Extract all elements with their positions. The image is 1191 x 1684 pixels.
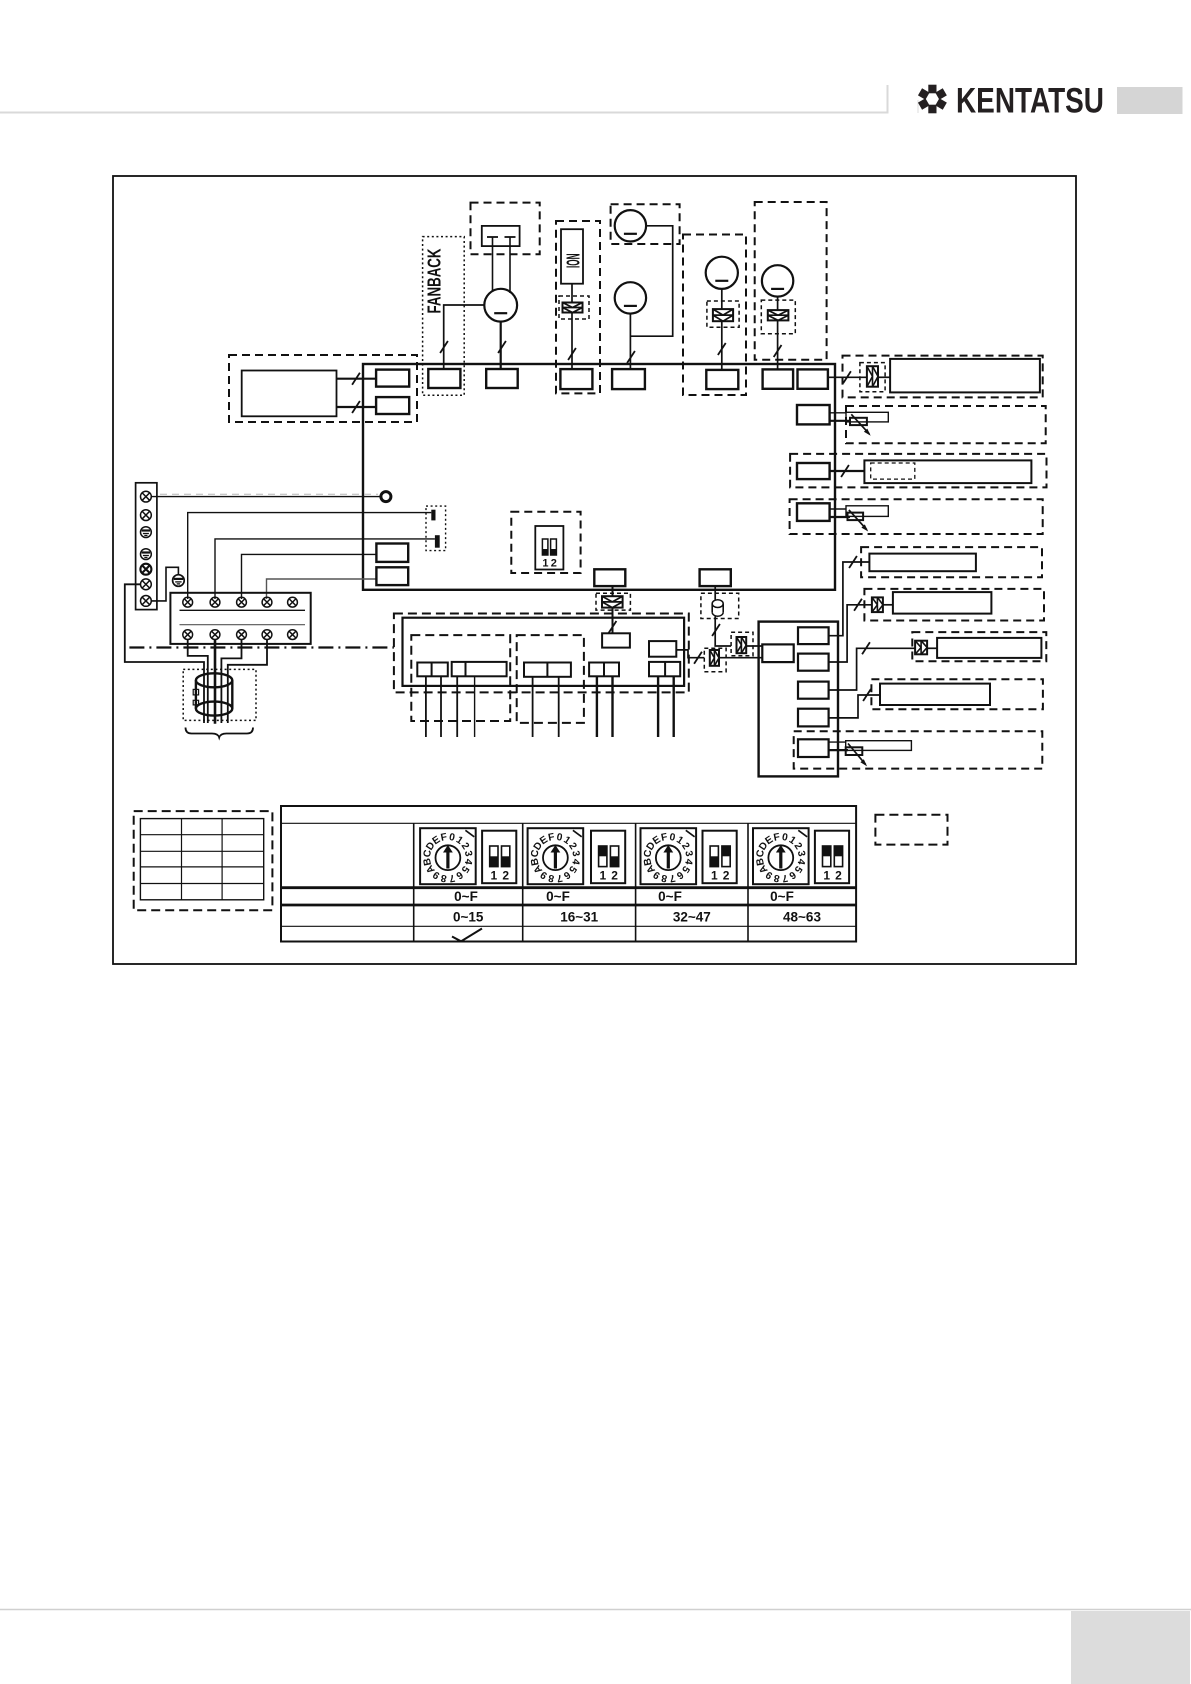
wire block4 down xyxy=(228,640,267,724)
wire ion to plug xyxy=(571,284,573,303)
connector CN-L3 xyxy=(376,544,408,562)
rotary switch 1 xyxy=(420,828,476,884)
display PCB outline xyxy=(759,622,838,777)
indicator A6 dashed box xyxy=(864,589,1044,621)
ferrite bead dashed box xyxy=(701,593,739,618)
wire fanback to fan motor xyxy=(444,305,485,369)
plug S1 dashed box xyxy=(704,648,726,672)
wire M2a loop xyxy=(630,226,672,336)
connector S2-out xyxy=(649,641,676,657)
louver motor M2b xyxy=(615,282,646,313)
rotary switch 4 xyxy=(753,828,809,884)
sub board outer dashed box xyxy=(394,614,689,693)
DIP switch SW1 dashed box xyxy=(511,512,580,573)
block screw bottom 3 xyxy=(237,630,247,640)
wire S2 to display PCB xyxy=(746,645,762,647)
A7 plug connector xyxy=(915,641,927,655)
wire count slash xyxy=(862,642,870,654)
rotary switch 3 xyxy=(641,828,697,884)
wire riser board to A6 xyxy=(829,605,872,662)
fan motor M1 xyxy=(484,289,517,322)
indicator body A7 xyxy=(937,638,1041,658)
wire CN-A to plug xyxy=(612,586,614,596)
wires board to sensor A9 xyxy=(829,741,846,743)
svg-text:0~F: 0~F xyxy=(658,889,682,904)
wires CN-T1 to sensor xyxy=(830,412,846,414)
ion plug dashed box xyxy=(559,296,589,319)
terminal group dashed box 1 xyxy=(411,635,510,721)
terminal group dashed box 2 xyxy=(517,635,584,723)
DIP SW1 switch 1 xyxy=(542,539,548,555)
sensor arrow A2 xyxy=(851,414,869,434)
wire screw3 riser to CN-L3 xyxy=(242,554,377,599)
svg-text:0~F: 0~F xyxy=(770,889,794,904)
block screw top 3 xyxy=(237,597,247,607)
rotary switch 2 xyxy=(528,828,584,884)
address table column line xyxy=(747,823,749,941)
connector S1-in xyxy=(602,633,630,647)
wire M3 to CN-SWING2 xyxy=(721,289,723,309)
capacitor terminal 1 xyxy=(487,236,498,238)
diagram border xyxy=(113,176,1076,964)
wire T6 to cable xyxy=(125,584,204,723)
connector CN-T2 xyxy=(797,463,830,479)
svg-text:0~15: 0~15 xyxy=(453,910,484,925)
header rule xyxy=(0,85,888,113)
DIP switch bank 3 xyxy=(703,831,737,884)
plug connector below CN-A xyxy=(602,596,623,607)
wire count slash xyxy=(498,341,506,353)
M4 plug connector xyxy=(768,310,789,320)
connector G4 xyxy=(589,663,619,677)
power supply module dashed box xyxy=(229,355,417,422)
wire count slash xyxy=(718,343,726,355)
connector G3 xyxy=(524,663,571,677)
strip terminal 1 xyxy=(141,491,152,502)
wires CN-T3 to sensor xyxy=(830,508,846,510)
wire power to CN-L2 xyxy=(337,406,377,408)
connector CN-SWING2 xyxy=(706,370,738,389)
svg-text:2: 2 xyxy=(835,869,842,883)
wire count slash xyxy=(627,351,635,363)
M4 plug dashed box xyxy=(761,300,795,334)
block screw top 4 xyxy=(262,597,272,607)
plug S2 dashed box xyxy=(731,632,753,656)
connector CN-D2 xyxy=(798,654,829,671)
svg-text:1: 1 xyxy=(711,869,718,883)
address table thick line 2 xyxy=(281,904,856,907)
connector CN-L1 xyxy=(376,370,409,387)
louver motor M2a xyxy=(615,210,646,241)
svg-text:2: 2 xyxy=(502,869,509,883)
wire count slash xyxy=(712,624,720,636)
wire capacitor to motor 2 xyxy=(509,246,511,293)
receiver body A3 xyxy=(864,460,1031,483)
sensor body A9 xyxy=(846,741,912,751)
indicator A7 dashed box xyxy=(912,632,1046,661)
DIP switch bank 4 xyxy=(815,831,849,884)
louver motor dashed box xyxy=(611,204,680,244)
sub board outline xyxy=(403,618,685,686)
footer gray box xyxy=(1071,1611,1190,1684)
wire plug to CN-ION xyxy=(571,313,573,370)
wire bead down xyxy=(715,616,731,646)
wire capacitor to motor xyxy=(492,246,494,291)
wire count slash xyxy=(352,373,360,385)
fan capacitor body xyxy=(482,226,520,246)
main PCB outline xyxy=(363,364,835,590)
cylinder tab 1 xyxy=(193,689,198,695)
address table column line xyxy=(413,823,415,941)
wire count slash xyxy=(863,689,871,701)
ferrite bead xyxy=(712,604,723,613)
jumper pin 1 xyxy=(431,510,435,521)
wire motor to CN-FAN xyxy=(500,322,502,369)
swing motor M4 xyxy=(762,265,793,296)
connector CN-D4 xyxy=(798,709,829,727)
earth lug xyxy=(173,575,185,587)
svg-text:48~63: 48~63 xyxy=(783,910,821,925)
wire riser board to A8 xyxy=(829,695,880,718)
wire count slash xyxy=(841,465,849,477)
wire count slash xyxy=(774,345,782,357)
swing motor dashed box xyxy=(683,235,746,396)
current transformer cylinder xyxy=(196,673,232,687)
block screw top 2 xyxy=(210,597,220,607)
wire count slash xyxy=(694,652,702,664)
strip terminal 7 xyxy=(141,596,152,607)
Kentatsu logo mark xyxy=(918,85,947,114)
display assembly A1 dashed box xyxy=(843,356,1043,398)
terminal strip outline xyxy=(136,483,157,610)
wire count slash xyxy=(849,556,857,568)
DIP SW1 switch 2 xyxy=(551,539,557,555)
indicator A5 dashed box xyxy=(861,547,1042,577)
strip terminal 6 xyxy=(141,579,152,590)
connector CN-SWING1 xyxy=(612,369,645,389)
svg-text:1: 1 xyxy=(542,558,548,570)
strip terminal 5 xyxy=(140,564,151,575)
sensor head A9 xyxy=(846,747,863,755)
capacitor terminal 2 xyxy=(505,236,516,238)
svg-text:0~F: 0~F xyxy=(454,889,478,904)
ION body xyxy=(561,229,583,284)
wire block1 down xyxy=(188,640,208,724)
block screw bottom 1 xyxy=(183,630,193,640)
plug connector S1 xyxy=(710,650,719,666)
jumper dotted box xyxy=(426,506,446,550)
connector G5 xyxy=(649,662,680,676)
svg-text:ION: ION xyxy=(563,254,584,269)
connector CN-D3 xyxy=(798,682,829,699)
strip terminal 3 earth xyxy=(141,527,152,538)
address table column line xyxy=(635,823,637,941)
legend table xyxy=(140,819,263,900)
wire block2 down xyxy=(214,640,217,724)
connector CN-FANBACK xyxy=(428,369,460,388)
indicator body A6 xyxy=(893,592,992,614)
wire screw1 riser to jumper xyxy=(188,513,432,599)
wire screw2 riser to jumper xyxy=(215,539,435,599)
wire riser board to A5 xyxy=(829,562,870,636)
wire T1 to test point xyxy=(151,496,380,498)
wire CN-DISP to plug xyxy=(828,376,867,378)
wire plug to A6 xyxy=(883,604,893,606)
block screw top 5 xyxy=(288,597,298,607)
address table outline xyxy=(281,806,856,942)
indoor unit boundary dash line xyxy=(129,646,394,648)
header gray box xyxy=(1117,87,1183,114)
svg-text:2: 2 xyxy=(723,869,730,883)
connector G2 xyxy=(452,662,507,676)
hanging lead wires xyxy=(425,677,427,737)
FANBACK dotted box xyxy=(423,237,465,396)
strip terminal 2 xyxy=(141,510,152,521)
M3 plug connector xyxy=(713,309,733,321)
svg-text:2: 2 xyxy=(551,558,557,570)
ION unit dashed box xyxy=(556,221,600,393)
factory default checkmark xyxy=(452,929,482,942)
address table thin line xyxy=(281,925,856,927)
address table column line xyxy=(522,823,524,941)
connector CN-D1 xyxy=(798,627,829,644)
wire M2b to CN-SWING1 xyxy=(629,314,631,370)
indicator body A5 xyxy=(869,554,976,572)
receiver A3 dashed box xyxy=(790,454,1046,488)
wire sub board to S1 xyxy=(677,650,705,658)
wire plug to display xyxy=(878,376,890,378)
svg-text:FANBACK: FANBACK xyxy=(425,249,445,314)
sensor A4 dashed box xyxy=(790,499,1043,534)
legend table dashed box xyxy=(134,811,273,910)
connector CN-D5 xyxy=(798,739,829,757)
jumper pin 2 xyxy=(435,535,440,548)
cable brace xyxy=(186,728,254,738)
DIP switch bank 2 xyxy=(591,831,625,884)
sensor head A4 xyxy=(848,513,864,521)
terminal block outline xyxy=(170,593,310,644)
sensor body A4 xyxy=(846,506,888,517)
test point ring xyxy=(381,492,391,502)
connector G1 xyxy=(417,663,448,677)
connector CN-T3 xyxy=(797,503,830,521)
footer rule xyxy=(0,1609,1191,1611)
ion plug connector xyxy=(563,303,583,313)
address table thick line 1 xyxy=(281,886,856,889)
DIP switch SW1 body xyxy=(535,526,563,570)
power supply module body xyxy=(242,371,337,417)
block screw top 1 xyxy=(183,597,193,607)
connector CN-A xyxy=(594,569,625,586)
A1 plug dashed box xyxy=(860,363,885,392)
DIP switch bank 1 xyxy=(482,831,516,884)
wire screw4 riser to CN-L4 xyxy=(267,579,377,599)
plug connector S2 xyxy=(737,637,747,653)
note dashed box xyxy=(875,815,947,845)
wire CN-T2 to receiver xyxy=(830,470,865,472)
sensor arrow A9 xyxy=(848,744,866,765)
connector CN-DISP xyxy=(798,369,828,388)
block screw bottom 5 xyxy=(288,630,298,640)
swing motor M3 xyxy=(706,257,738,289)
sensor body A2 xyxy=(846,412,888,422)
svg-text:1: 1 xyxy=(823,869,830,883)
connector CN-D0 xyxy=(762,644,793,662)
wire count slash xyxy=(440,341,448,353)
wire power to CN-L1 xyxy=(337,378,377,380)
connector CN-L4 xyxy=(376,567,408,585)
plug below CN-A dashed box xyxy=(596,593,630,610)
M3 plug dashed box xyxy=(707,301,739,327)
wire count slash xyxy=(568,348,576,360)
wire S1 to display PCB xyxy=(719,657,762,659)
block screw bottom 4 xyxy=(262,630,272,640)
connector CN-ION xyxy=(560,369,592,389)
svg-text:KENTATSU: KENTATSU xyxy=(956,81,1104,121)
wire CN-B down xyxy=(714,586,716,600)
sensor A9 dashed box xyxy=(794,731,1043,768)
wire count slash xyxy=(352,401,360,413)
sensor A2 dashed box xyxy=(846,406,1046,443)
svg-text:1: 1 xyxy=(491,869,498,883)
cylinder tab 2 xyxy=(193,700,198,705)
svg-text:16~31: 16~31 xyxy=(560,910,598,925)
svg-text:0~F: 0~F xyxy=(546,889,570,904)
terminal block rail 2 xyxy=(180,624,306,626)
wire T7 to earth lug xyxy=(151,567,178,601)
wire M4 to CN-SWING3 xyxy=(777,297,779,311)
fan capacitor dashed box xyxy=(471,203,540,255)
block screw bottom 2 xyxy=(210,630,220,640)
indicator body A8 xyxy=(880,684,990,705)
wire plug to sub board xyxy=(612,608,614,634)
wire count slash xyxy=(843,371,851,383)
current transformer dotted box xyxy=(183,669,256,720)
wire riser board to A7 xyxy=(829,648,916,690)
sensor head A2 xyxy=(850,418,867,425)
wire block3 down xyxy=(221,640,241,724)
connector CN-B xyxy=(700,569,731,586)
display unit body A1 xyxy=(890,359,1040,393)
svg-text:1: 1 xyxy=(599,869,606,883)
wire count slash xyxy=(854,599,862,611)
wire plug to A7 xyxy=(927,647,937,649)
wire count slash xyxy=(609,621,617,633)
address table header line xyxy=(281,822,856,824)
A1 plug connector xyxy=(867,366,878,387)
terminal block rail 1 xyxy=(180,609,306,611)
svg-text:32~47: 32~47 xyxy=(673,910,711,925)
indicator A8 dashed box xyxy=(871,679,1043,709)
connector CN-T1 xyxy=(797,405,830,424)
connector CN-SWING3 xyxy=(763,369,794,388)
svg-text:2: 2 xyxy=(611,869,618,883)
swing motor 2 dashed box xyxy=(755,202,827,360)
receiver window A3 xyxy=(871,463,915,479)
strip terminal 4 earth xyxy=(141,549,152,560)
connector CN-FAN xyxy=(486,369,518,388)
connector CN-L2 xyxy=(376,397,409,414)
sensor arrow A4 xyxy=(849,510,867,530)
A6 plug connector xyxy=(872,597,883,612)
